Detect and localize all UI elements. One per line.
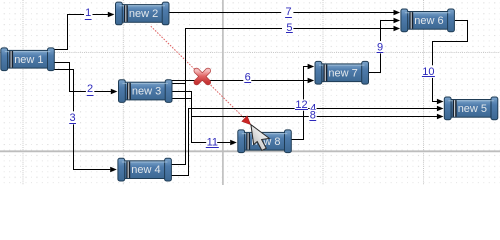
wire 12 new4-to-new5: [171, 106, 444, 176]
svg-text:new 6: new 6: [414, 15, 443, 27]
svg-text:new 1: new 1: [14, 54, 43, 66]
solid grid axis y=151.3: [0, 150, 500, 152]
svg-text:new 3: new 3: [132, 86, 161, 98]
dotted grid line x=23.0: [22, 0, 24, 185]
svg-text:3: 3: [70, 112, 76, 124]
wire 8 new3-to-new5: [171, 92, 444, 120]
edge label 3: [68, 111, 77, 124]
edge label 5: [282, 22, 293, 34]
edge label 6: [243, 71, 251, 83]
node new5: [444, 97, 498, 120]
wire 2 new1-to-new3: [55, 63, 118, 95]
svg-text:6: 6: [245, 72, 251, 84]
wire stub new3 side: [171, 83, 186, 85]
canvas background: [0, 0, 500, 185]
red drag arrowhead: [242, 116, 251, 125]
dotted grid line x=423.5: [423, 0, 425, 185]
wire 11 new3-to-new8: [171, 99, 237, 146]
svg-text:8: 8: [310, 109, 316, 121]
edge label 8: [309, 109, 317, 121]
wire 10 new6-to-new5: [433, 21, 468, 105]
dotted grid line x=323.0: [322, 0, 324, 185]
svg-text:new 5: new 5: [458, 103, 487, 115]
wire 6 new3-to-new7: [171, 78, 314, 83]
mouse cursor: [251, 125, 269, 151]
edge label 2: [86, 83, 94, 97]
edge label 1: [84, 7, 93, 20]
edge label 4: [310, 102, 317, 114]
red X delete marker: [197, 71, 208, 82]
wire 5 new4-to-new6: [171, 26, 400, 165]
node new3: [119, 80, 173, 103]
node new7: [315, 61, 369, 84]
edge label 7: [281, 6, 293, 19]
svg-text:2: 2: [87, 83, 93, 95]
svg-text:new 7: new 7: [328, 67, 357, 79]
node new2: [116, 2, 170, 25]
wire 9 new7-to-new6: [368, 18, 401, 73]
wire 3 new1-to-new4: [55, 70, 117, 173]
wire 7 new2-to-new6: [169, 10, 400, 15]
svg-text:11: 11: [207, 137, 218, 149]
node new8: [238, 130, 291, 153]
dotted grid line y=52.5: [0, 52, 500, 54]
svg-text:new 2: new 2: [129, 8, 158, 20]
svg-text:1: 1: [85, 7, 91, 19]
wire 1 new1-to-new2: [55, 12, 115, 50]
svg-text:7: 7: [285, 6, 291, 18]
edge label 12: [295, 99, 309, 111]
wire 4 new8-to-new7: [290, 64, 314, 140]
node new4: [118, 158, 171, 181]
edge label 10: [421, 65, 435, 78]
node new1: [1, 48, 55, 71]
edge label 9: [376, 41, 384, 54]
svg-text:9: 9: [377, 42, 383, 54]
node new6: [401, 9, 455, 32]
edge label 11: [206, 136, 219, 148]
red dashed drag link new2 to new8: [151, 26, 246, 119]
svg-text:new 4: new 4: [131, 164, 160, 176]
dotted grid line x=123.3: [122, 0, 124, 185]
solid grid axis x=222.9: [222, 0, 224, 185]
